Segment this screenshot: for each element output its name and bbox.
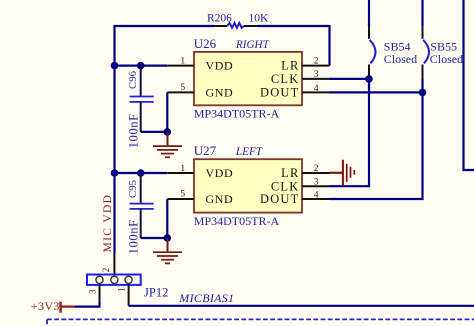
wire: SB55 net top [421, 0, 423, 27]
connector JP12 body [87, 275, 141, 285]
svg-text:C95: C95 [127, 180, 139, 198]
svg-text:GND: GND [206, 192, 234, 206]
pin 4 U27 DOUT [302, 198, 330, 200]
svg-text:1: 1 [180, 164, 185, 174]
pin 5 U26 GND [167, 91, 194, 93]
svg-text:3: 3 [314, 177, 319, 187]
wire: right edge net [464, 0, 474, 170]
wire: top horizontal right of R206 [258, 25, 330, 27]
svg-text:2: 2 [101, 268, 111, 273]
svg-text:DOUT: DOUT [260, 192, 300, 206]
svg-text:Closed: Closed [384, 52, 417, 66]
pin 1 U26 VDD [167, 65, 194, 67]
svg-text:MP34DT05TR-A: MP34DT05TR-A [194, 107, 280, 121]
svg-text:DOUT: DOUT [260, 86, 300, 100]
capacitor C95 top lead [140, 173, 142, 203]
ground symbol upper [153, 132, 182, 157]
pin 3 U27 CLK [302, 185, 330, 187]
svg-text:100nF: 100nF [126, 113, 140, 148]
solder bridge SB54 arc [370, 40, 376, 64]
node junction SB54 x CLK [365, 75, 373, 83]
svg-text:3: 3 [314, 70, 319, 80]
connector JP12 pin 2 lead [113, 253, 115, 275]
capacitor C96 bottom lead [140, 102, 142, 132]
svg-text:LEFT: LEFT [235, 146, 263, 158]
svg-text:1: 1 [180, 57, 185, 67]
wire: SB54 down to U27 CLK [330, 79, 370, 186]
connector JP12 pin 1 lead [128, 285, 130, 306]
capacitor C95 plates [130, 204, 154, 209]
node junction SB55 x DOUT [419, 89, 427, 97]
node junction MIC_VDD x U26 VDD [111, 62, 119, 70]
svg-text:JP12: JP12 [144, 286, 168, 300]
resistor R1 R206 pins [215, 25, 258, 27]
wire: top horizontal left of R206 [114, 25, 215, 27]
svg-text:R206: R206 [207, 12, 232, 24]
wire: U26 GND riser [166, 92, 168, 131]
svg-text:1: 1 [117, 288, 127, 293]
ground symbol side (U27 LR) [343, 160, 354, 186]
svg-text:GND: GND [206, 86, 234, 100]
svg-text:5: 5 [180, 189, 185, 199]
node junction C96 top [137, 62, 145, 70]
wire: U26 VDD net [115, 64, 168, 66]
wire: SB55 down to U27 DOUT [330, 79, 423, 199]
connector JP12 pin 3 lead [99, 285, 101, 303]
svg-text:RIGHT: RIGHT [235, 39, 270, 51]
svg-text:5: 5 [180, 83, 185, 93]
svg-text:MICBIAS1: MICBIAS1 [178, 291, 234, 305]
capacitor C95 bottom lead [140, 209, 142, 238]
pin 1 U27 VDD [167, 172, 194, 174]
resistor R206 zigzag body [227, 23, 244, 28]
pin 3 U26 CLK [302, 78, 330, 80]
node junction gnd upper [164, 128, 172, 136]
wire: MIC_VDD vertical main [113, 26, 115, 253]
wire: U27 VDD net [115, 172, 168, 174]
solder bridge SB55 arc [423, 40, 429, 64]
pin 2 U26 LR [302, 65, 330, 67]
pin 4 U26 DOUT [302, 91, 330, 93]
svg-text:Closed: Closed [430, 52, 463, 66]
op-amp U27 body [194, 159, 302, 212]
dashed blanket region border [47, 318, 474, 320]
svg-text:CLK: CLK [271, 72, 300, 86]
capacitor C96 plates [130, 97, 154, 102]
svg-text:VDD: VDD [206, 59, 234, 73]
wire: +3V3 to JP12 pin 3 [74, 302, 99, 307]
svg-text:C96: C96 [127, 70, 139, 89]
svg-text:2: 2 [314, 164, 319, 174]
node junction C95 top [137, 169, 145, 177]
power port +3V3 bar [59, 302, 61, 313]
svg-text:2: 2 [314, 56, 319, 66]
wire: C95 bottom jog to gnd node [141, 237, 168, 239]
pin 5 U27 GND [167, 198, 194, 200]
svg-text:VDD: VDD [206, 166, 234, 180]
svg-text:100nF: 100nF [126, 219, 140, 254]
svg-text:U27: U27 [194, 143, 217, 158]
wire: drop to U26 pin 2 [328, 25, 330, 66]
wire: +3V3 red stub [62, 306, 75, 308]
op-amp U26 body [194, 52, 302, 105]
solder bridge SB55 pins [422, 27, 424, 79]
capacitor C96 top lead [140, 66, 142, 96]
ground symbol lower [153, 238, 182, 263]
wire: U27 LR red stub [330, 172, 343, 174]
node junction MIC_VDD x U27 VDD [111, 169, 119, 177]
wire: MICBIAS1 [129, 305, 474, 307]
svg-text:3: 3 [88, 289, 98, 294]
svg-text:LR: LR [281, 59, 299, 73]
svg-text:+3V3: +3V3 [31, 299, 60, 313]
svg-text:MIC VDD: MIC VDD [102, 194, 114, 253]
wire: U26 DOUT to SB55 [330, 91, 423, 93]
svg-text:LR: LR [281, 166, 299, 180]
solder bridge SB54 pins [368, 26, 370, 79]
svg-text:U26: U26 [194, 36, 217, 51]
pin 2 U27 LR [302, 172, 330, 174]
node junction gnd lower [164, 234, 172, 242]
wire: U26 CLK to SB54 [330, 78, 370, 80]
svg-text:4: 4 [314, 84, 319, 94]
connector JP12 pads [96, 276, 103, 283]
wire: U27 GND riser [166, 199, 168, 238]
wire: C96 bottom jog to gnd node [141, 131, 168, 133]
wire: SB54 net top [368, 0, 370, 26]
svg-text:MP34DT05TR-A: MP34DT05TR-A [194, 214, 280, 228]
svg-text:4: 4 [314, 191, 319, 201]
svg-text:10K: 10K [249, 12, 270, 24]
